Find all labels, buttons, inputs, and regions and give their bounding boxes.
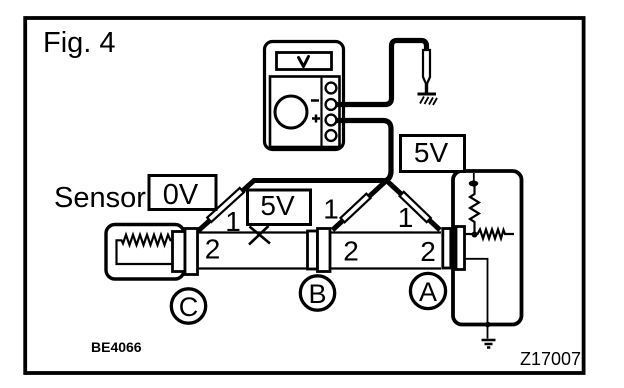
voltmeter dial — [275, 96, 307, 128]
wire: negative test lead to body ground — [337, 41, 427, 105]
svg-text:5V: 5V — [414, 137, 449, 168]
svg-text:2: 2 — [343, 235, 359, 266]
body ground bar — [418, 93, 437, 96]
svg-text:Fig. 4: Fig. 4 — [43, 27, 116, 59]
svg-text:B: B — [308, 279, 326, 309]
svg-text:BE4066: BE4066 — [91, 339, 142, 355]
sensor internal resistor loop — [117, 235, 175, 264]
0V label box — [149, 176, 216, 210]
connector C — [173, 232, 186, 272]
resistor R1 (pull-up, vertical) — [470, 186, 479, 233]
open-circuit X mark — [249, 226, 270, 245]
wire: probe to connector B pin 1 — [333, 181, 387, 231]
5V supply dot — [469, 181, 479, 187]
connector A — [443, 229, 451, 269]
voltmeter U1 body — [265, 42, 344, 150]
svg-text:5V: 5V — [260, 190, 295, 221]
5V label box (right) — [401, 136, 465, 172]
voltmeter V mark — [299, 57, 309, 67]
voltmeter panel — [270, 77, 340, 148]
dot on ECU bottom edge — [485, 322, 491, 328]
wire harness top line (pin 1 wire) — [198, 231, 442, 233]
resistor R2 (horizontal) — [475, 230, 515, 239]
probe body at C — [207, 188, 244, 222]
node A callout circle — [410, 273, 445, 308]
svg-text:Sensor: Sensor — [54, 182, 146, 214]
body ground hatching — [420, 97, 437, 106]
minus sign — [311, 99, 319, 102]
node B callout circle — [300, 276, 334, 310]
node junction dot — [472, 232, 478, 238]
terminal jack 3 (plus) — [326, 115, 337, 126]
svg-text:A: A — [419, 277, 437, 307]
terminal jack 1 — [326, 83, 337, 94]
probe body at B — [341, 194, 371, 223]
svg-text:1: 1 — [323, 194, 339, 225]
wire connector A pin1 to node — [465, 233, 475, 235]
svg-text:1: 1 — [225, 206, 241, 237]
wire: positive test lead down to probe junction — [337, 121, 391, 181]
connector B — [308, 231, 318, 269]
probe body at A — [400, 192, 431, 222]
terminal jack 2 (minus) — [326, 99, 337, 110]
negative probe body — [423, 50, 430, 85]
wire harness bottom line (pin 2 wire) — [198, 267, 442, 269]
negative probe tip — [425, 84, 428, 93]
node C callout circle — [171, 289, 205, 323]
svg-text:C: C — [179, 292, 199, 322]
svg-text:0V: 0V — [163, 179, 199, 211]
sensor body — [106, 225, 184, 280]
ECU box — [453, 171, 522, 325]
voltmeter terminal divider — [320, 77, 322, 148]
5V label box (middle) — [248, 190, 311, 225]
svg-text:1: 1 — [398, 202, 414, 233]
svg-text:2: 2 — [205, 234, 221, 265]
svg-text:Z17007: Z17007 — [520, 349, 581, 369]
plus sign — [312, 115, 320, 123]
wire connector A pin2 to ground — [465, 259, 487, 339]
svg-text:2: 2 — [420, 236, 436, 267]
wire: probe bus to connector C pin 1 — [198, 181, 387, 232]
wire: probe to connector A pin 1 — [387, 181, 441, 231]
voltmeter display — [277, 53, 332, 70]
terminal jack 4 — [326, 130, 337, 141]
ground symbol — [482, 340, 496, 348]
